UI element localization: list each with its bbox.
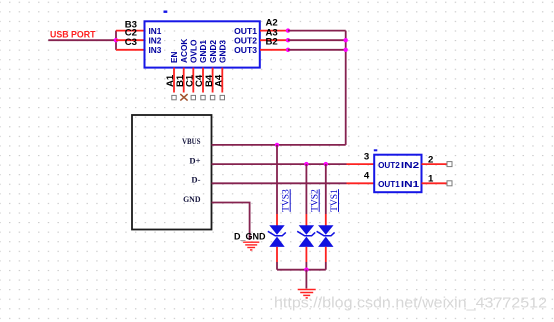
wire ground rail (277, 269, 326, 271)
svg-text:IN3: IN3 (149, 45, 162, 55)
wire TVS2 to rail (305, 262, 307, 270)
junction dot bus OUT3 (344, 48, 348, 52)
TVS diode TVS3 (268, 225, 286, 247)
svg-text:D+: D+ (189, 155, 200, 165)
pin stub TVS1 top (325, 214, 327, 226)
power port D_GND ground bars (243, 242, 259, 250)
pin stub TVS3 top (276, 214, 278, 226)
junction dot (114, 38, 118, 42)
wire TVS2 branch upper (305, 164, 307, 214)
wire D- (212, 182, 347, 184)
svg-text:IN1: IN1 (401, 179, 420, 189)
pin stub OVLO (C1) (192, 68, 194, 93)
svg-text:TVS3: TVS3 (282, 189, 292, 212)
wire D+ (212, 163, 347, 165)
svg-text:https://blog.csdn.net/weixin_4: https://blog.csdn.net/weixin_43772512 (274, 295, 547, 312)
junction dot OUT1 (286, 28, 290, 32)
no-connect square pin 2 (447, 162, 452, 167)
junction dot bus OUT2 (344, 38, 348, 42)
no-connect square pin A4 (220, 95, 224, 99)
svg-text:2: 2 (428, 154, 433, 165)
svg-text:GND2: GND2 (208, 40, 218, 63)
svg-text:OUT2: OUT2 (378, 160, 400, 170)
svg-text:OUT1: OUT1 (378, 179, 400, 189)
no-connect square pin B4 (210, 95, 214, 99)
svg-text:4: 4 (364, 170, 370, 181)
junction dot rail (304, 268, 308, 272)
pin OUT1 stub (A2) (260, 30, 288, 32)
svg-text:A4: A4 (214, 74, 225, 87)
svg-text:1: 1 (428, 173, 434, 184)
wire OUT3 to bus (288, 49, 346, 51)
svg-text:GND: GND (183, 194, 200, 204)
svg-text:D_GND: D_GND (234, 231, 266, 241)
pin 1 stub (422, 182, 448, 184)
no-connect square pin C4 (201, 95, 205, 99)
comment dash above U1 (164, 10, 168, 12)
pin stub TVS1 bottom (325, 247, 327, 262)
wire rail to ground (305, 270, 307, 289)
pin stub ACOK (B1) (183, 68, 185, 93)
pin stub GND1 (C4) (202, 68, 204, 93)
svg-text:ACOK: ACOK (179, 39, 189, 63)
junction dot D+/TVS2 (304, 162, 308, 166)
pin stub EN (A1) (173, 68, 175, 93)
wire TVS3 to rail (276, 262, 278, 270)
svg-text:3: 3 (364, 152, 369, 163)
wire TVS1 branch upper (325, 164, 327, 214)
svg-text:TVS2: TVS2 (311, 189, 321, 212)
svg-text:OUT1: OUT1 (234, 26, 257, 36)
svg-text:EN: EN (169, 51, 179, 63)
wire vertical branch at x=116 (115, 31, 117, 50)
pin IN1 stub (B3) (116, 30, 145, 32)
pin stub GND3 (A4) (221, 68, 223, 93)
pin OUT2 stub (A3) (260, 39, 288, 41)
pin stub TVS2 top (305, 214, 307, 226)
junction dot D+/TVS1 (324, 162, 328, 166)
pin IN2 stub (C2) (116, 39, 145, 41)
comment dash above U2 (374, 149, 378, 151)
svg-text:C3: C3 (125, 37, 137, 48)
no-connect square pin A1 (172, 95, 176, 99)
wire TVS1 to rail (325, 262, 327, 270)
svg-text:D-: D- (191, 175, 200, 185)
wire OUT2 to bus (288, 39, 346, 41)
wire TVS3 branch upper (276, 145, 278, 214)
ground symbol bottom (298, 290, 316, 298)
no-connect square pin 1 (447, 181, 452, 186)
svg-text:GND1: GND1 (198, 40, 208, 63)
pin 4 stub (347, 182, 375, 184)
pin IN3 stub (C3) (116, 49, 145, 51)
svg-text:TVS1: TVS1 (330, 189, 340, 212)
pin stub GND2 (B4) (212, 68, 214, 93)
wire USB PORT horizontal (48, 39, 116, 41)
svg-text:USB PORT: USB PORT (50, 30, 96, 40)
wire GND (212, 203, 250, 241)
wire VBUS (212, 144, 346, 146)
junction dot OUT2 (286, 38, 290, 42)
junction dot OUT3 (286, 48, 290, 52)
pin stub TVS2 bottom (305, 247, 307, 262)
no-ERC cross pin B1 (180, 94, 187, 101)
svg-text:IN2: IN2 (401, 160, 420, 170)
junction dot VBUS/TVS3 (275, 143, 279, 147)
TVS diode TVS2 (297, 225, 315, 247)
svg-text:OVLO: OVLO (189, 39, 199, 63)
wire bus vertical down to VBUS (345, 31, 347, 145)
svg-text:GND3: GND3 (218, 40, 228, 63)
no-connect square pin C1 (191, 95, 195, 99)
IC U1 body (145, 21, 260, 67)
pin OUT3 stub (B2) (260, 49, 288, 51)
TVS diode TVS1 (317, 225, 335, 247)
svg-text:IN2: IN2 (149, 35, 162, 45)
svg-text:IN1: IN1 (149, 26, 162, 36)
svg-text:B2: B2 (266, 37, 278, 48)
pin stub TVS3 bottom (276, 247, 278, 262)
pin 2 stub (422, 163, 448, 165)
svg-text:OUT3: OUT3 (234, 45, 257, 55)
connector J1 body (132, 115, 212, 230)
svg-text:VBUS: VBUS (182, 136, 201, 146)
IC U2 body (374, 155, 421, 193)
wire OUT1 to bus (288, 30, 346, 32)
svg-text:OUT2: OUT2 (234, 35, 257, 45)
pin 3 stub (347, 163, 375, 165)
